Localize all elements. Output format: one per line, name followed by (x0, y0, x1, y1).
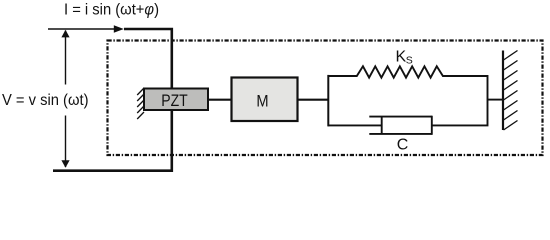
voltage double arrow (65, 31, 67, 168)
wire (link from right bar to wall) (488, 99, 504, 101)
wire (mechanical axis PZT-M-bar) (208, 99, 329, 101)
node V label (0, 85, 90, 116)
wall hatching (504, 51, 518, 131)
mass M block (232, 78, 298, 122)
svg-text:PZT: PZT (161, 91, 188, 110)
wire (bottom branch rod to damper piston) (328, 124, 381, 126)
svg-text:M: M (256, 93, 268, 111)
svg-text:S: S (406, 55, 413, 67)
PZT block (144, 89, 208, 111)
wire (thick electrical loop: top, right-down through PZT, bottom) (53, 29, 172, 171)
svg-text:V = v sin (ωt): V = v sin (ωt) (2, 92, 89, 109)
node bar (left branch bar) (327, 75, 329, 127)
damper C (dashpot) (369, 116, 432, 135)
spring Ks (top branch, zigzag) + right bar + rod back to damper (328, 66, 487, 125)
wall (fixed support) (502, 51, 504, 131)
svg-text:C: C (397, 137, 409, 154)
svg-text:I = i sin (ωt+φ): I = i sin (ωt+φ) (64, 2, 159, 19)
wire (thin current annotation line) (48, 28, 115, 30)
current arrowhead (114, 25, 124, 33)
ground hatching left of PZT (137, 88, 144, 119)
dashed enclosure box (108, 41, 543, 156)
